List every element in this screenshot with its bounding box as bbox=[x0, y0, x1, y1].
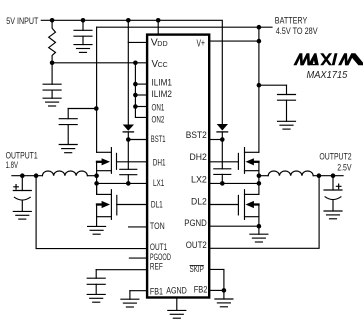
svg-text:DL1: DL1 bbox=[151, 199, 163, 210]
svg-text:CC: CC bbox=[158, 62, 168, 69]
svg-text:OUTPUT2: OUTPUT2 bbox=[319, 152, 351, 162]
svg-text:DD: DD bbox=[157, 39, 167, 48]
svg-text:DL2: DL2 bbox=[191, 197, 207, 208]
svg-text:ON1: ON1 bbox=[152, 103, 165, 114]
svg-text:FB1: FB1 bbox=[150, 286, 163, 297]
svg-text:PGND: PGND bbox=[184, 218, 207, 229]
svg-text:1.8V: 1.8V bbox=[6, 160, 19, 170]
svg-text:V+: V+ bbox=[197, 39, 206, 50]
svg-text:LX1: LX1 bbox=[153, 178, 164, 189]
svg-text:REF: REF bbox=[150, 262, 163, 273]
svg-text:OUT2: OUT2 bbox=[186, 240, 207, 251]
svg-text:BST2: BST2 bbox=[186, 130, 207, 141]
svg-text:4.5V TO 28V: 4.5V TO 28V bbox=[276, 26, 319, 36]
svg-text:ILIM1: ILIM1 bbox=[152, 77, 173, 88]
svg-text:LX2: LX2 bbox=[191, 175, 207, 186]
svg-text:DH2: DH2 bbox=[190, 152, 207, 163]
svg-text:ON2: ON2 bbox=[152, 114, 165, 125]
svg-text:DH1: DH1 bbox=[153, 157, 166, 168]
svg-text:5V INPUT: 5V INPUT bbox=[6, 16, 38, 26]
svg-text:OUTPUT1: OUTPUT1 bbox=[6, 150, 38, 160]
svg-text:ILIM2: ILIM2 bbox=[152, 89, 173, 100]
svg-text:2.5V: 2.5V bbox=[337, 163, 352, 173]
svg-text:TON: TON bbox=[150, 221, 165, 232]
svg-text:MAX1715: MAX1715 bbox=[307, 70, 348, 81]
svg-text:BATTERY: BATTERY bbox=[275, 16, 308, 26]
svg-text:FB2: FB2 bbox=[194, 284, 208, 295]
svg-text:BST1: BST1 bbox=[151, 134, 166, 145]
svg-text:AGND: AGND bbox=[166, 285, 187, 296]
